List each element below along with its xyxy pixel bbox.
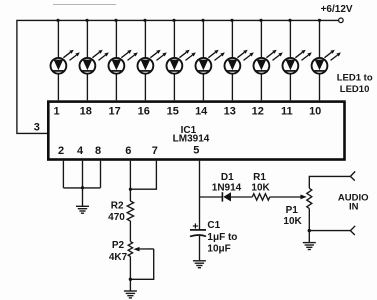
capacitor C1 plates [190, 230, 206, 237]
LED LED3 [109, 20, 138, 100]
svg-text:C1: C1 [207, 220, 220, 231]
svg-text:7: 7 [152, 145, 158, 157]
label AUDIO IN [338, 192, 369, 212]
node P2 bottom junction [129, 278, 132, 281]
svg-text:14: 14 [195, 106, 208, 118]
wire R1 to P1 wiper arrow [270, 195, 307, 200]
svg-text:3: 3 [34, 122, 40, 134]
wire pin 6 down to R2 [129, 161, 131, 201]
diode D1 1N914 [222, 192, 231, 201]
svg-text:13: 13 [224, 106, 236, 118]
wire pin 7 [130, 161, 156, 190]
wire P1 bottom to audio input low terminal [309, 230, 350, 232]
ground (P2) [124, 291, 137, 298]
label P1 10K [283, 205, 302, 227]
node junction pins 6-7 [129, 188, 132, 191]
svg-text:10μF: 10μF [207, 243, 230, 254]
wire P2 wiper return to bottom [130, 249, 153, 279]
svg-text:P1: P1 [286, 205, 299, 216]
svg-text:+6/12V: +6/12V [321, 4, 353, 15]
svg-text:5: 5 [193, 145, 199, 157]
resistor R2 470 [127, 201, 133, 221]
IC U1 LM3914 body [48, 102, 344, 160]
svg-text:LED1 to: LED1 to [337, 73, 373, 84]
svg-text:10: 10 [309, 106, 321, 118]
wire pin 5 to D1 [200, 196, 223, 198]
capacitor C1 plus sign [193, 223, 198, 228]
svg-text:8: 8 [95, 145, 101, 157]
LED LED9 [283, 20, 312, 100]
wire pin 8 [100, 161, 102, 188]
svg-text:IN: IN [349, 201, 359, 212]
potentiometer P2 4K7 body [128, 242, 132, 257]
svg-text:12: 12 [252, 106, 264, 118]
wire pin 2 [62, 161, 64, 188]
ground (pin 4) [76, 206, 89, 213]
svg-text:4: 4 [77, 145, 84, 157]
node: bus junction dots [56, 19, 321, 22]
svg-text:LM3914: LM3914 [173, 134, 210, 145]
LED LED8 [254, 20, 283, 100]
svg-text:D1: D1 [221, 172, 234, 183]
wire C1 to ground [199, 235, 201, 260]
svg-text:15: 15 [167, 106, 179, 118]
svg-text:1N914: 1N914 [212, 182, 242, 193]
node P1 bottom junction [308, 229, 311, 232]
svg-text:R1: R1 [253, 172, 266, 183]
ground (C1) [193, 261, 206, 268]
terminal audio in top [350, 171, 355, 180]
wire: +V supply bus with left drop to pin 3 [17, 20, 339, 133]
label R2 470 [108, 201, 125, 224]
svg-text:10K: 10K [251, 182, 270, 193]
LED LED4 [138, 20, 167, 100]
svg-text:P2: P2 [112, 240, 125, 251]
svg-text:R2: R2 [111, 201, 124, 212]
LED LED1 [51, 20, 80, 100]
wire R2 to P2 [129, 221, 131, 242]
wire P2 bottom to ground [129, 257, 131, 292]
resistor R1 10K [252, 194, 269, 200]
LED LED10 [312, 20, 341, 100]
LED LED7 [225, 20, 254, 100]
P2 wiper arrow [133, 247, 153, 252]
wire P1 top to audio input terminal [309, 176, 350, 188]
svg-text:1: 1 [53, 106, 59, 118]
svg-text:1μF to: 1μF to [207, 232, 237, 243]
label P2 4K7 [109, 240, 128, 263]
potentiometer P1 10K body [307, 188, 312, 208]
terminal audio in bottom [350, 226, 355, 235]
wire pins 2-4-8 tie bar [63, 187, 100, 189]
label R1 10K [251, 172, 270, 194]
LED LED2 [80, 20, 109, 100]
wire P1 bottom to ground [308, 209, 310, 243]
label LED1 to LED10 [337, 73, 373, 95]
svg-text:11: 11 [281, 106, 293, 118]
wire pin 5 down [199, 161, 201, 230]
label C1 1uF to 10uF [207, 220, 237, 254]
svg-text:470: 470 [108, 212, 125, 223]
wire pin 4 to ground [82, 161, 84, 207]
node junction pins 2-4-8 [81, 186, 84, 189]
terminal: +6/12V supply [339, 18, 344, 23]
svg-text:4K7: 4K7 [109, 252, 128, 263]
label D1 1N914 [212, 172, 242, 194]
svg-text:18: 18 [80, 106, 92, 118]
LED LED6 [196, 20, 225, 100]
svg-text:16: 16 [138, 106, 150, 118]
svg-text:17: 17 [108, 106, 120, 118]
faint smudge line top [53, 4, 116, 6]
ground (P1) [303, 243, 316, 250]
svg-text:LED10: LED10 [340, 84, 370, 95]
label IC1 LM3914 [173, 125, 210, 145]
svg-text:6: 6 [125, 145, 131, 157]
svg-text:10K: 10K [283, 216, 302, 227]
wire D1 to R1 [231, 196, 252, 198]
svg-text:2: 2 [58, 145, 64, 157]
LED LED5 [167, 20, 196, 100]
